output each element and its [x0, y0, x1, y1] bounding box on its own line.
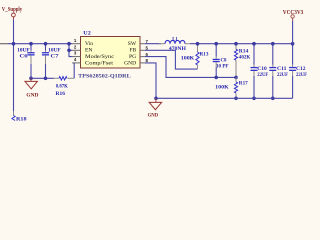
resistor R13 [181, 42, 209, 69]
svg-text:R13: R13 [200, 51, 209, 57]
node EN tie junctions [67, 42, 71, 46]
wire input gnd bus [31, 77, 54, 79]
capacitor C12 [289, 42, 307, 98]
svg-text:TPS628502-Q1DRL: TPS628502-Q1DRL [78, 74, 131, 80]
capacitor C8 [213, 42, 229, 79]
power port VCC3V3 [283, 10, 304, 18]
capacitor C10 [251, 42, 269, 100]
svg-text:R17: R17 [239, 81, 248, 87]
svg-text:FB: FB [129, 48, 136, 54]
svg-text:U2: U2 [83, 31, 91, 37]
pin 5 stub FB [140, 49, 145, 51]
node C7 bus junction [44, 77, 48, 81]
svg-text:100K: 100K [181, 56, 195, 62]
wire FB pin to R13 bottom [145, 50, 198, 69]
svg-text:PG: PG [129, 54, 136, 60]
wire PG pin to feedback node rail [145, 57, 236, 78]
svg-text:L1: L1 [172, 37, 178, 42]
power port V_Supply [2, 7, 22, 17]
resistor R16 [54, 77, 75, 97]
node feedback divider junction [234, 76, 238, 80]
svg-text:V_Supply: V_Supply [2, 7, 22, 13]
svg-text:100K: 100K [215, 85, 229, 91]
svg-text:8.87K: 8.87K [56, 84, 68, 90]
svg-text:C7: C7 [51, 53, 60, 59]
svg-text:GND: GND [26, 92, 38, 98]
pin 1 stub [72, 43, 80, 45]
IC U2 TPS628502-Q1DRL buck converter [78, 31, 140, 80]
svg-text:SW: SW [128, 41, 137, 47]
wire V_Supply vertical to rail and down to R18 [13, 17, 15, 20]
svg-text:Mode/Sync: Mode/Sync [85, 54, 115, 60]
wire GND pin to ground rail [145, 63, 156, 98]
pin 7 stub SW [140, 43, 145, 45]
capacitor C11 [269, 42, 288, 100]
ground GND (input) [25, 78, 38, 98]
resistor R18 top lead (cut off at bottom edge) [13, 111, 15, 116]
svg-text:Comp/Fset: Comp/Fset [85, 60, 113, 66]
pin 4 stub [72, 62, 80, 64]
svg-text:Vin: Vin [85, 41, 93, 47]
svg-text:VCC3V3: VCC3V3 [283, 10, 304, 16]
pin 8 stub GND [140, 62, 145, 64]
svg-text:R18: R18 [16, 117, 27, 121]
svg-text:402K: 402K [239, 54, 251, 60]
wire output ground rail [156, 97, 293, 99]
svg-text:22UF: 22UF [277, 72, 288, 78]
wire R16 to Comp/Fset pin4 [72, 63, 74, 78]
wire VCC3V3 to VOUT rail [292, 18, 294, 21]
svg-text:EN: EN [85, 48, 92, 54]
pin 2 stub [72, 49, 80, 51]
svg-text:22UF: 22UF [257, 72, 268, 78]
node C6 bus junction [29, 77, 33, 81]
svg-text:470NH: 470NH [169, 46, 186, 52]
svg-text:C6: C6 [20, 53, 29, 59]
svg-text:GND: GND [148, 112, 159, 118]
svg-text:GND: GND [124, 60, 136, 66]
inductor L1 470NH [159, 37, 190, 52]
capacitor C6 [17, 42, 34, 78]
node ground rail junction [154, 97, 158, 101]
resistor R17 [215, 77, 248, 100]
pin 3 stub [72, 56, 80, 58]
resistor R14 [234, 42, 250, 78]
node junction V_Supply / rail [12, 42, 16, 46]
wire SW pin to inductor [145, 43, 161, 45]
capacitor C7 [42, 42, 61, 78]
wire input rail to Vin pin1 [0, 43, 8, 45]
wire EN/Mode tie to Vin rail [69, 44, 72, 57]
pin 6 stub PG [140, 56, 145, 58]
svg-text:10 PF: 10 PF [216, 63, 229, 69]
ground GND (output) [148, 98, 162, 118]
svg-text:22UF: 22UF [296, 72, 307, 78]
wire VOUT rail [190, 43, 293, 45]
svg-text:R16: R16 [56, 91, 66, 97]
